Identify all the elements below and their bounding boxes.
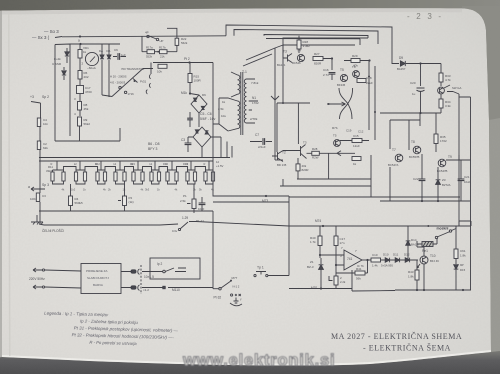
wire transformer left connections	[219, 98, 238, 131]
bottom dark band	[0, 351, 500, 374]
resistor R44 1.8k right	[454, 249, 458, 259]
wire osc bottom bus	[289, 288, 336, 290]
ground y symbol	[234, 298, 239, 304]
wire rail bottom link	[275, 159, 283, 161]
diode bridge D6 upper	[191, 95, 207, 113]
wire transformer to amp diagonal lower	[243, 54, 272, 66]
switch Pt-32 arm	[221, 281, 231, 288]
top-right corner dark patch	[462, 6, 500, 120]
resistor R27 820R	[313, 57, 323, 61]
wire Ip1 vertical link	[141, 36, 143, 51]
wire top bus to feedback corners	[62, 36, 226, 37]
wire diode chain	[381, 259, 406, 261]
wire left vertical bus	[39, 103, 42, 224]
dashed connector line	[140, 265, 142, 294]
capacitor C5	[187, 118, 193, 120]
potentiometer P2	[123, 196, 127, 206]
connector plug lower	[131, 286, 136, 289]
ground chassis symbol	[31, 222, 43, 225]
resistor R17a 552k	[147, 50, 155, 54]
diode D12	[405, 258, 409, 263]
resistor R17b 21k	[160, 50, 168, 54]
mains transformer box	[81, 264, 121, 294]
wire signal bus upper	[39, 157, 230, 159]
switch Pt-31 contact dots	[119, 86, 121, 88]
node dot meter bus	[79, 43, 81, 45]
wire signal bus lower	[39, 160, 213, 162]
resistor R9 56k	[78, 117, 82, 126]
resistor R29 40k	[351, 59, 360, 63]
resistor R40 1.7k	[318, 236, 322, 246]
wire link from output stage	[459, 221, 471, 226]
transistor T5b	[334, 140, 341, 147]
wire right tall vertical x471	[459, 97, 471, 290]
switch Pt-31 selector arm	[112, 69, 143, 97]
wire bridge to bus	[202, 137, 221, 158]
diode D14 BA157	[406, 241, 411, 245]
wire amp left rail junction	[282, 102, 284, 104]
wire ladder bottom bus	[39, 210, 213, 212]
wire arm to resistor R16a	[143, 63, 153, 75]
top dark band	[0, 0, 500, 11]
capacitor C3	[185, 143, 192, 145]
resistor R30 with cap 22uF	[357, 79, 366, 83]
resistor R31 820R	[296, 164, 300, 171]
switch Pt-32 input wire	[213, 288, 219, 290]
transformer T1 core	[241, 72, 243, 135]
wire R17 chain	[142, 51, 177, 53]
diode D1	[65, 52, 69, 56]
transformer secondary taps	[247, 79, 259, 123]
wire transformer drops	[221, 137, 232, 158]
resistor R43 1.8k	[415, 270, 419, 280]
switch Ip2 box	[150, 258, 200, 279]
transistor T6	[353, 71, 360, 78]
resistor R5 1k	[78, 50, 82, 59]
transistor T9 BC547B	[438, 159, 446, 167]
op-amp U1 741	[344, 250, 362, 270]
wire T2 feed verticals	[277, 103, 298, 152]
potentiometer P1 2.5k	[192, 199, 196, 209]
switch Ip2 contacts	[163, 270, 166, 273]
diode D4	[107, 55, 111, 59]
transistor T8 BC557B	[413, 146, 421, 154]
wire amp mid bottom rails	[280, 155, 371, 186]
resistor R6 202	[78, 71, 82, 80]
capacitor C17 4700	[77, 86, 84, 94]
switch Pt-31 contact arcs	[149, 74, 150, 78]
attenuator ladder top stubs	[57, 161, 209, 170]
wire x328 vertical	[328, 153, 330, 179]
wire to Ip2	[142, 272, 163, 288]
wire feedback outer loop	[226, 25, 399, 64]
wire crossing X	[339, 88, 353, 119]
resistor R22 562k	[175, 38, 179, 45]
wire output stage verticals	[390, 120, 471, 201]
capacitor C7 2/2uF	[263, 138, 265, 145]
resistor R36	[352, 157, 361, 161]
resistor R8 45k	[78, 102, 82, 111]
capacitor C23 17n	[334, 236, 338, 246]
terminal 220V neutral	[33, 285, 42, 289]
wire relay bottom bus	[395, 289, 471, 291]
wire D9 to C20 node	[406, 63, 441, 65]
wire bottom of D9 cell	[380, 112, 441, 114]
wire meter box outline	[55, 44, 120, 141]
wire opamp inputs	[320, 252, 344, 265]
resistor R15 100R	[188, 74, 192, 83]
wire meter section vertical chain	[79, 44, 81, 116]
capacitor C8 10uF	[199, 203, 206, 205]
wire vertical rail x275	[274, 48, 276, 160]
wire amp vertical rails	[360, 39, 375, 140]
transistor T10 BFJ46	[420, 256, 428, 264]
relay switch contact	[437, 232, 450, 238]
diode D10	[385, 258, 389, 263]
wire R32 chain	[307, 152, 356, 154]
transistor T3b	[283, 145, 307, 159]
wire amp top rail	[283, 44, 355, 46]
resistor R35 1702	[434, 134, 438, 144]
resistor R2	[37, 141, 40, 150]
wire relay bus link left	[352, 290, 395, 293]
terminal 220V phase	[33, 268, 42, 272]
relay coil Re1	[422, 242, 433, 247]
wire transformer lower diagonal	[213, 98, 228, 131]
resistor R3 100n	[36, 193, 39, 202]
transistor T4 BC546	[297, 54, 304, 61]
capacitor C16 2.7n	[329, 73, 336, 75]
left edge sliver	[0, 11, 2, 358]
zener Z3	[436, 180, 441, 185]
wire right stage top	[390, 113, 420, 149]
resistor R34 3.3k	[439, 99, 443, 108]
wire amp mid top rail y103	[277, 102, 310, 104]
right dark band	[489, 118, 500, 352]
diode D2	[62, 71, 66, 75]
wire left link down	[39, 224, 289, 276]
meter M1 60uA	[85, 52, 98, 65]
watermark www.elektronik.si	[182, 352, 335, 370]
switch P1-21	[180, 222, 188, 229]
transformer T1 primary winding	[238, 75, 240, 94]
wire box outputs	[121, 272, 131, 288]
diode D11	[395, 258, 399, 263]
wire feedback second loop	[234, 30, 378, 45]
transformer T1 lower primary winding	[238, 101, 240, 129]
wire osc top bus	[289, 225, 471, 227]
page top edge shade	[2, 8, 462, 14]
bottom page edge highlight curl	[2, 350, 491, 366]
capacitor C22	[419, 179, 426, 181]
diode bridge D6 lower	[193, 127, 211, 147]
diode D9 BA157	[400, 61, 405, 66]
resistor R41 56k feedback	[355, 271, 365, 275]
potentiometer P3	[334, 276, 338, 285]
wire feedback fourth loop	[266, 38, 360, 40]
attenuator ladder interconnects	[64, 167, 206, 171]
resistor R32 R2W	[312, 151, 320, 155]
capacitor C21 10uF	[458, 179, 465, 181]
transistor T7 BC547A	[395, 154, 403, 162]
wire output stage bottom bus	[380, 200, 470, 202]
wire T10 emitter arrow	[417, 264, 420, 268]
wire mid vertical to M73 bus	[213, 63, 289, 197]
node M73	[265, 195, 267, 197]
wire meter top bus	[70, 43, 120, 45]
resistor R28 3.3k	[297, 40, 301, 49]
diode D15	[454, 265, 459, 269]
wire R22 top corner	[167, 28, 177, 51]
wire T4 to C16	[323, 59, 332, 71]
capacitor C20 1uF	[420, 64, 422, 87]
zener Z2 BZ-3	[319, 265, 324, 270]
resistor R37 12k	[352, 139, 362, 143]
diode D3	[100, 55, 104, 59]
wire T3 base from left rail	[282, 45, 284, 58]
switch Ip1 contacts	[147, 35, 149, 37]
wire bus y202	[213, 196, 289, 226]
switch Pt-32 contacts row	[231, 294, 233, 296]
resistor R42 1.4k	[371, 258, 381, 262]
resistor R11 10k	[158, 64, 167, 68]
capacitor C1	[37, 118, 40, 127]
wire right tall vertical	[458, 94, 460, 226]
wire opamp ground vertical	[336, 270, 352, 291]
wire opamp output	[362, 259, 371, 261]
wire meter diode drops	[102, 63, 112, 97]
wire chassis bus	[37, 215, 160, 225]
wire mid link	[212, 211, 214, 289]
node junction dot	[79, 35, 81, 37]
trimmer SW GA	[438, 87, 445, 94]
capacitor C6	[118, 53, 120, 60]
node dot R30 junction	[368, 76, 370, 78]
wire Pt2 horizontal	[153, 62, 213, 64]
connector plug upper	[131, 270, 136, 273]
attenuator ladder resistors	[51, 172, 54, 181]
wire to T10 base	[410, 259, 418, 261]
transformer T1 secondary winding	[244, 79, 246, 123]
resistor R33 4.7k	[439, 73, 443, 82]
transistor T2 BD135	[272, 151, 283, 162]
wire mains to box	[45, 270, 81, 288]
wire long bottom bus y197	[289, 196, 460, 198]
node Pt2	[188, 61, 190, 63]
wire feedback third loop	[264, 35, 368, 39]
wire amp enclosure left side	[283, 38, 368, 103]
legend text	[43, 311, 179, 348]
junction arrow on rail	[271, 96, 279, 100]
resistor R4 560k	[69, 196, 73, 206]
wire Tp1 to osc rail	[268, 275, 289, 277]
transistor T5 BF245	[340, 74, 347, 81]
wire transformer to amp diagonal upper	[246, 45, 283, 60]
transistor T3	[283, 54, 292, 63]
